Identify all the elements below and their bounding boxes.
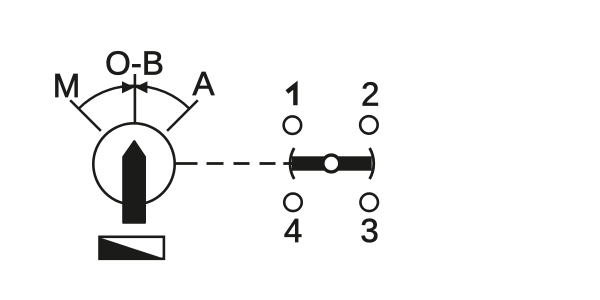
- terminal 1 circle: [284, 116, 302, 134]
- spring-return arrowhead right: [135, 81, 148, 93]
- contact bridge bar: [292, 156, 372, 170]
- rotary knob circle: [93, 123, 174, 204]
- terminal 3 circle: [360, 194, 378, 212]
- svg-text:O-B: O-B: [105, 45, 164, 82]
- spring-return arrowhead left: [122, 81, 135, 93]
- wedge symbol box: [100, 237, 164, 259]
- right paren contact mark: [370, 148, 374, 179]
- svg-text:3: 3: [360, 212, 378, 249]
- terminal 4 circle: [284, 194, 302, 212]
- svg-text:4: 4: [284, 212, 302, 249]
- wedge fill triangle: [99, 237, 164, 258]
- svg-text:A: A: [192, 65, 214, 102]
- left paren contact mark: [290, 148, 294, 179]
- bridge pivot circle: [323, 155, 340, 172]
- dashed link line: [175, 162, 293, 165]
- label 1 (drawn digit): [287, 85, 296, 105]
- knob pointer (filled handle): [124, 142, 145, 223]
- terminal 2 circle: [360, 116, 378, 133]
- tick A position: [167, 100, 198, 131]
- selector travel arc: [79, 86, 190, 109]
- svg-text:M: M: [53, 67, 81, 104]
- position line O-B (vertical pointer line): [134, 74, 137, 124]
- svg-text:2: 2: [361, 75, 379, 112]
- tick M position: [70, 100, 101, 131]
